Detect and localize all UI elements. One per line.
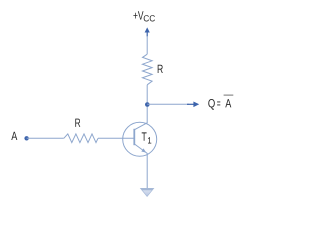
label Q = A-bar (output) [208,95,233,110]
label T1 [142,132,152,143]
node +VCC label [133,11,155,21]
wire output node down to transistor collector [146,104,148,123]
node junction dot (collector/output) [145,102,150,107]
resistor R (collector, vertical zigzag) [143,54,153,85]
VCC supply arrow (up) [145,27,150,36]
wire VCC arrow to resistor R top [146,36,148,54]
ground symbol [141,188,154,196]
wire resistor bottom to output node [146,85,148,105]
transistor T1 emitter lead [134,144,147,154]
transistor T1 emitter arrowhead [141,148,146,152]
label R (collector resistor) [158,65,163,73]
output arrow (right) [187,102,199,108]
wire output node to output arrow [147,103,189,105]
transistor T1 base bar [133,129,135,145]
label R (base resistor) [75,119,80,127]
wire input dot to resistor R [27,137,64,139]
label A (input) [11,132,17,140]
wire emitter to ground [146,153,148,188]
transistor T1 circle [123,122,157,156]
transistor T1 collector lead [134,123,147,130]
resistor R (base, horizontal zigzag) [64,134,98,143]
input terminal dot [24,136,28,140]
wire resistor to transistor base [98,137,134,139]
